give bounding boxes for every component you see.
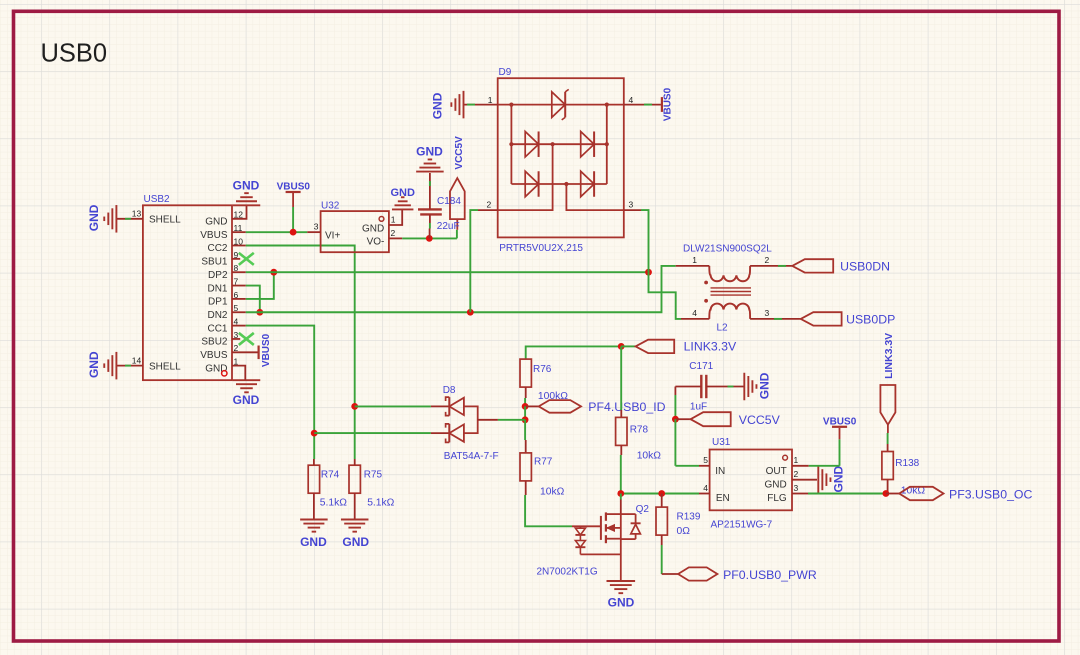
choke L2 top winding — [709, 266, 750, 281]
junction DN — [256, 309, 263, 316]
svg-text:VI+: VI+ — [325, 231, 340, 242]
svg-text:C184: C184 — [437, 196, 461, 207]
port LINK3.3V stub — [621, 345, 635, 347]
wire DP: USB2.8 to D9.3 junction — [246, 271, 649, 273]
wire DP continues to L2 pin4 — [649, 272, 682, 319]
svg-text:SHELL: SHELL — [149, 214, 181, 225]
svg-text:8: 8 — [234, 263, 239, 273]
component U32 body — [321, 211, 389, 252]
svg-text:1uF: 1uF — [690, 401, 707, 412]
Q2 source rail to GND — [580, 553, 620, 555]
svg-text:GND: GND — [758, 372, 772, 399]
D9 internal middle rail — [511, 143, 606, 145]
capacitor C184 — [418, 208, 442, 210]
U31 pin 4 EN — [699, 493, 710, 495]
svg-text:11: 11 — [234, 223, 243, 233]
wire R75 bottom to GND — [354, 493, 356, 519]
svg-text:USB0DN: USB0DN — [840, 259, 890, 273]
svg-text:R139: R139 — [677, 512, 701, 523]
svg-text:9: 9 — [234, 250, 239, 260]
pin 3 SBU2 — [201, 330, 240, 348]
L2 pin 3 lead — [750, 318, 801, 320]
svg-text:VBUS0: VBUS0 — [823, 416, 857, 427]
resistor R75 — [349, 465, 360, 493]
svg-text:VCC5V: VCC5V — [739, 413, 781, 427]
wire D9 pin 2 down to DN — [470, 210, 478, 312]
wire D9 pin 3 down to DP — [641, 210, 649, 272]
svg-text:0Ω: 0Ω — [677, 526, 691, 537]
ground symbol at USB2 pin 14 — [115, 352, 117, 380]
svg-text:CC1: CC1 — [207, 323, 227, 334]
C171 left lead — [675, 386, 701, 388]
port PF4.USB0_ID (hex) — [539, 400, 581, 413]
junction DP at D9 pin3 — [645, 269, 652, 276]
svg-text:R77: R77 — [534, 456, 553, 467]
Q2 body diode — [621, 513, 636, 515]
svg-text:DN2: DN2 — [207, 310, 227, 321]
svg-text:GND: GND — [608, 595, 635, 609]
svg-text:VBUS: VBUS — [200, 350, 228, 361]
pin 8 DP2 — [208, 263, 246, 281]
svg-text:3: 3 — [765, 308, 770, 318]
D9 internal junction — [551, 142, 555, 146]
wire node down to R77 — [524, 420, 526, 440]
resistor R74 — [308, 465, 319, 493]
svg-text:3: 3 — [794, 483, 799, 493]
dual diode D8 top (cathode to CC2) — [448, 397, 450, 416]
svg-text:GND: GND — [205, 217, 227, 228]
svg-text:LINK3.3V: LINK3.3V — [684, 339, 737, 353]
svg-text:4: 4 — [234, 317, 239, 327]
svg-text:GND: GND — [431, 92, 445, 119]
wire R138 bottom to PF3 node — [887, 480, 889, 494]
U32 inversion bubble — [379, 217, 384, 222]
svg-text:3: 3 — [234, 330, 239, 340]
svg-text:GND: GND — [300, 535, 327, 549]
D9 zener diode (top) — [552, 92, 565, 118]
svg-text:2: 2 — [391, 228, 396, 238]
unconnected marker ring at USB2 pin 1 — [222, 371, 227, 376]
svg-text:GND: GND — [764, 480, 786, 491]
svg-text:VBUS0: VBUS0 — [663, 87, 674, 121]
port VCC5V stub — [675, 418, 690, 420]
junction DP — [270, 269, 277, 276]
port PF0.USB0_PWR (hex) — [678, 567, 717, 580]
svg-text:D8: D8 — [443, 385, 456, 396]
svg-text:U31: U31 — [712, 437, 731, 448]
wire CC2: USB2.10 right and down to R75/D8 — [246, 246, 355, 458]
power bar VBUS0 at D9 pin 4 — [661, 97, 663, 112]
wire CC2 node to D8 top cathode — [355, 405, 431, 407]
pin 1 GND — [205, 357, 245, 381]
svg-text:GND: GND — [205, 363, 227, 374]
wire LINK3.3V down to R78 — [620, 346, 622, 410]
Q2 gate bar — [600, 516, 602, 540]
choke L2 bottom winding — [709, 304, 750, 319]
D9 diode bottom-right — [581, 171, 594, 197]
connector J USB2 body — [143, 205, 232, 380]
svg-text:DN1: DN1 — [207, 283, 227, 294]
svg-text:2: 2 — [765, 255, 770, 265]
capacitor C171 — [700, 375, 702, 398]
svg-text:R74: R74 — [321, 470, 340, 481]
D9 internal right bus — [606, 105, 608, 184]
wire VBUS0 drop to VBUS net — [292, 207, 294, 232]
svg-text:DP1: DP1 — [208, 297, 228, 308]
svg-text:5.1kΩ: 5.1kΩ — [320, 498, 347, 509]
D9 internal junction — [509, 103, 513, 107]
svg-text:VBUS0: VBUS0 — [261, 333, 272, 367]
D9 internal bottom rail — [511, 183, 606, 185]
svg-text:5: 5 — [234, 303, 239, 313]
svg-text:LINK3.3V: LINK3.3V — [883, 333, 895, 379]
Q2 channel segments — [605, 512, 607, 520]
resistor R138 — [882, 452, 893, 480]
junction LINK3.3V at R78 — [618, 343, 625, 350]
ground symbol below Q2 — [607, 580, 636, 582]
svg-text:3: 3 — [629, 199, 634, 209]
wire DN: USB2.5 to L2 pin1 — [246, 266, 676, 312]
svg-text:PRTR5V0U2X,215: PRTR5V0U2X,215 — [499, 243, 583, 254]
D9 pin 2 lead — [478, 209, 498, 211]
no-connect X on SBU2 — [239, 333, 254, 345]
wire U31 FLG to PF3 node — [808, 493, 886, 495]
D9 diode middle-left — [525, 131, 538, 157]
svg-text:AP2151WG-7: AP2151WG-7 — [711, 520, 773, 531]
svg-text:USB2: USB2 — [144, 194, 171, 205]
ground symbol at D9 pin 1 — [463, 91, 465, 119]
U32 pin 3 VI+ — [307, 231, 320, 233]
wire LINK3.3V rail — [526, 346, 622, 359]
L2 pin 2 lead — [750, 265, 792, 267]
power port VCC5V (pentagon) — [456, 219, 458, 230]
pin 9 SBU1 — [201, 250, 240, 268]
svg-text:OUT: OUT — [766, 466, 787, 477]
svg-text:GND: GND — [390, 187, 415, 199]
L2 pin 4 lead — [681, 318, 709, 320]
svg-text:SBU1: SBU1 — [201, 257, 228, 268]
power switch U31 body — [710, 450, 792, 511]
D8 bottom cathode lead — [431, 432, 449, 434]
junction EN at Q2/R78 — [617, 490, 624, 497]
Q2 source/bottom connection — [606, 538, 621, 540]
D9 pin 3 lead — [624, 209, 641, 211]
wire U31 OUT up to VBUS0 — [809, 465, 840, 467]
D9 pin 1 — [464, 104, 498, 106]
svg-text:U32: U32 — [321, 200, 340, 211]
junction CC2 node — [351, 403, 358, 410]
dual diode D8 bottom (cathode to CC1) — [448, 424, 450, 443]
svg-text:GND: GND — [233, 393, 260, 407]
pin 7 DN1 — [207, 276, 245, 294]
D9 internal junction — [605, 103, 609, 107]
svg-text:2: 2 — [234, 343, 239, 353]
power port LINK3.3V (pentagon down) — [880, 385, 895, 425]
svg-text:IN: IN — [715, 466, 725, 477]
svg-text:1: 1 — [234, 357, 239, 367]
D9 internal junction — [605, 142, 609, 146]
resistor R78 — [616, 417, 627, 445]
power bar VBUS0 at USB2 pin 2 — [258, 346, 260, 360]
svg-text:3: 3 — [314, 222, 319, 232]
svg-text:DP2: DP2 — [208, 270, 228, 281]
svg-text:1: 1 — [488, 95, 493, 105]
svg-text:PF4.USB0_ID: PF4.USB0_ID — [588, 400, 665, 414]
svg-text:1: 1 — [794, 455, 799, 465]
wire up to VCC5V power port — [456, 230, 458, 239]
svg-text:BAT54A-7-F: BAT54A-7-F — [444, 451, 499, 462]
junction CC1 node — [311, 430, 318, 437]
pin 4 CC1 — [207, 317, 245, 335]
junction VBUS/VBUS0 — [290, 229, 297, 236]
svg-text:2N7002KT1G: 2N7002KT1G — [537, 567, 598, 578]
wire between nodes — [524, 406, 526, 419]
Q2 drain/top connection — [606, 513, 621, 515]
L2 pin 1 lead — [676, 265, 710, 267]
wire VBUS: USB2.11 to U32.VI+ — [246, 231, 307, 233]
esd array D9 body — [498, 78, 624, 237]
power bar VBUS0 at U31 OUT — [839, 428, 841, 439]
svg-text:FLG: FLG — [767, 493, 787, 504]
wire R74 top stub — [313, 458, 315, 460]
svg-text:GND: GND — [832, 466, 846, 493]
power port VBUS0 top (T-bar) — [286, 191, 301, 193]
pin 13 SHELL — [116, 209, 181, 226]
resistor R77 — [520, 453, 531, 481]
wire R78 bottom to EN node — [620, 445, 622, 455]
junction VCC5V node at C184 — [426, 235, 433, 242]
svg-text:4: 4 — [703, 483, 708, 493]
svg-text:2: 2 — [794, 469, 799, 479]
svg-text:1: 1 — [692, 255, 697, 265]
svg-text:10kΩ: 10kΩ — [637, 451, 662, 462]
Q2 body arrow — [607, 527, 621, 529]
ground symbol above C184 — [416, 171, 444, 173]
D9 pin 4 to VBUS0 — [624, 104, 661, 106]
D8 anode lead to node — [478, 419, 498, 421]
svg-text:R78: R78 — [630, 425, 649, 436]
junction VCC5V port node — [672, 416, 679, 423]
port USB0DN — [792, 259, 833, 272]
D9 diode bottom-left — [525, 171, 538, 197]
ground symbol below R75 — [341, 519, 369, 521]
svg-text:DLW21SN900SQ2L: DLW21SN900SQ2L — [683, 243, 772, 254]
svg-text:GND: GND — [233, 179, 260, 193]
ground symbol above U32 pin 1 — [392, 208, 413, 210]
pin 6 DP1 — [208, 290, 246, 308]
junction EN at R139 — [658, 490, 665, 497]
svg-text:SHELL: SHELL — [149, 361, 181, 372]
pin 10 CC2 — [207, 236, 245, 254]
wire LINK3.3V to R138 — [887, 425, 889, 433]
port LINK3.3V — [636, 340, 675, 353]
svg-text:4: 4 — [629, 95, 634, 105]
wire VO- to VCC5V node — [402, 237, 457, 239]
pin 5 DN2 — [207, 303, 245, 321]
svg-text:PF0.USB0_PWR: PF0.USB0_PWR — [723, 568, 817, 582]
D8 top cathode lead — [431, 405, 449, 407]
ground symbol at U31 pin 2 — [817, 466, 819, 494]
C184 bottom pin to VCC5V node — [429, 214, 431, 223]
svg-text:14: 14 — [132, 355, 142, 365]
junction D8 anode node — [522, 416, 529, 423]
svg-text:VBUS0: VBUS0 — [277, 182, 311, 193]
wire C171 to VCC5V node — [674, 387, 676, 396]
svg-text:5: 5 — [703, 455, 708, 465]
svg-text:R138: R138 — [895, 458, 919, 469]
svg-text:Q2: Q2 — [636, 504, 650, 515]
wire R74 bottom to GND — [313, 493, 315, 519]
choke L2 core lines — [711, 287, 752, 289]
port PF3.USB0_OC (hex) — [899, 487, 943, 500]
wire CC1 node to D8 bottom cathode — [314, 432, 431, 434]
ground symbol below USB2 pin 1 — [233, 379, 261, 381]
port VCC5V — [691, 412, 731, 426]
wire DN1: USB2.7 down to DN2 — [246, 286, 260, 313]
svg-text:22uF: 22uF — [437, 221, 460, 232]
svg-text:EN: EN — [716, 493, 730, 504]
wire node to PF3 port — [886, 493, 899, 495]
svg-text:13: 13 — [132, 209, 142, 219]
svg-text:VO-: VO- — [367, 237, 385, 248]
svg-text:GND: GND — [416, 145, 443, 159]
svg-text:USB0DP: USB0DP — [846, 312, 895, 326]
resistor R139 — [661, 494, 663, 508]
svg-text:7: 7 — [234, 276, 239, 286]
U31 pin 5 IN — [699, 465, 710, 467]
svg-text:VCC5V: VCC5V — [454, 136, 465, 170]
ground symbol below R74 — [300, 519, 328, 521]
svg-text:12: 12 — [234, 210, 244, 220]
svg-text:10: 10 — [234, 236, 244, 246]
svg-text:1: 1 — [391, 215, 396, 225]
junction PF3 node — [883, 490, 890, 497]
U31 pin 3 FLG — [792, 493, 808, 495]
U31 pin 2 GND — [792, 479, 817, 481]
D9 internal drop to pin 3 — [566, 184, 623, 210]
no-connect X on SBU1 — [239, 253, 254, 265]
wire R139 bottom to PF0 port — [661, 535, 663, 545]
wire node to PF4 port — [525, 405, 539, 407]
C171 right lead to GND — [706, 386, 744, 388]
svg-text:D9: D9 — [499, 67, 512, 78]
port USB0DP — [801, 312, 842, 325]
D9 diode middle-right — [581, 131, 594, 157]
svg-text:R76: R76 — [533, 364, 552, 375]
wire R75 top stub — [354, 458, 356, 460]
C184 top pin to GND — [429, 173, 431, 209]
choke L2 phase dots — [704, 281, 708, 285]
wire CC1: USB2.4 right and down to R74/D8 — [246, 326, 314, 458]
svg-text:2: 2 — [487, 199, 492, 209]
U31 inversion bubble — [783, 455, 788, 460]
svg-text:4: 4 — [692, 308, 697, 318]
svg-text:GND: GND — [87, 351, 101, 378]
wire R76 bottom to node — [525, 387, 527, 398]
svg-text:USB0: USB0 — [41, 39, 108, 67]
wire VCC5V node down to U31 IN — [674, 419, 676, 466]
svg-text:GND: GND — [342, 535, 369, 549]
svg-text:L2: L2 — [717, 323, 729, 334]
U32 pin 2 VO- — [389, 237, 402, 239]
D9 internal left bus — [510, 105, 512, 184]
D8 common anode link — [464, 406, 478, 433]
Q2 gate lead — [572, 525, 601, 527]
ground symbol at USB2 pin 13 — [115, 205, 117, 233]
pin 11 VBUS — [200, 223, 246, 241]
svg-text:GND: GND — [87, 204, 101, 231]
Q2 gate protection zeners — [579, 526, 581, 528]
D9 internal top rail — [498, 104, 624, 106]
D9 internal junction — [564, 182, 568, 186]
wire EN net: Q2 drain to U31 EN — [621, 493, 699, 495]
ground symbol above USB2 pin 12 — [233, 204, 261, 206]
svg-text:CC2: CC2 — [207, 243, 227, 254]
svg-text:PF3.USB0_OC: PF3.USB0_OC — [949, 487, 1032, 501]
svg-text:6: 6 — [234, 290, 239, 300]
svg-text:R75: R75 — [364, 470, 383, 481]
pin 12 GND — [205, 205, 246, 227]
wire R77 bottom to Q2 gate — [525, 481, 527, 495]
svg-text:10kΩ: 10kΩ — [540, 486, 565, 497]
D9 internal junction — [509, 142, 513, 146]
wire DP1: USB2.6 up to DP2 — [246, 272, 274, 299]
svg-text:C171: C171 — [689, 361, 713, 372]
svg-text:SBU2: SBU2 — [201, 337, 228, 348]
svg-text:VBUS: VBUS — [200, 230, 228, 241]
pin 2 VBUS — [200, 343, 257, 361]
U31 pin 1 OUT — [792, 465, 809, 467]
svg-text:GND: GND — [362, 224, 384, 235]
transistor Q2 drain lead — [620, 494, 622, 500]
D9 internal drop to pin 2 — [498, 144, 553, 210]
svg-text:5.1kΩ: 5.1kΩ — [367, 498, 394, 509]
ground symbol right of C171 — [743, 373, 745, 401]
pin 14 SHELL — [116, 355, 181, 372]
resistor R76 — [520, 359, 531, 387]
U32 pin 1 GND — [389, 209, 402, 225]
junction DN at D9 pin2 — [467, 309, 474, 316]
junction PF4 node — [522, 403, 529, 410]
